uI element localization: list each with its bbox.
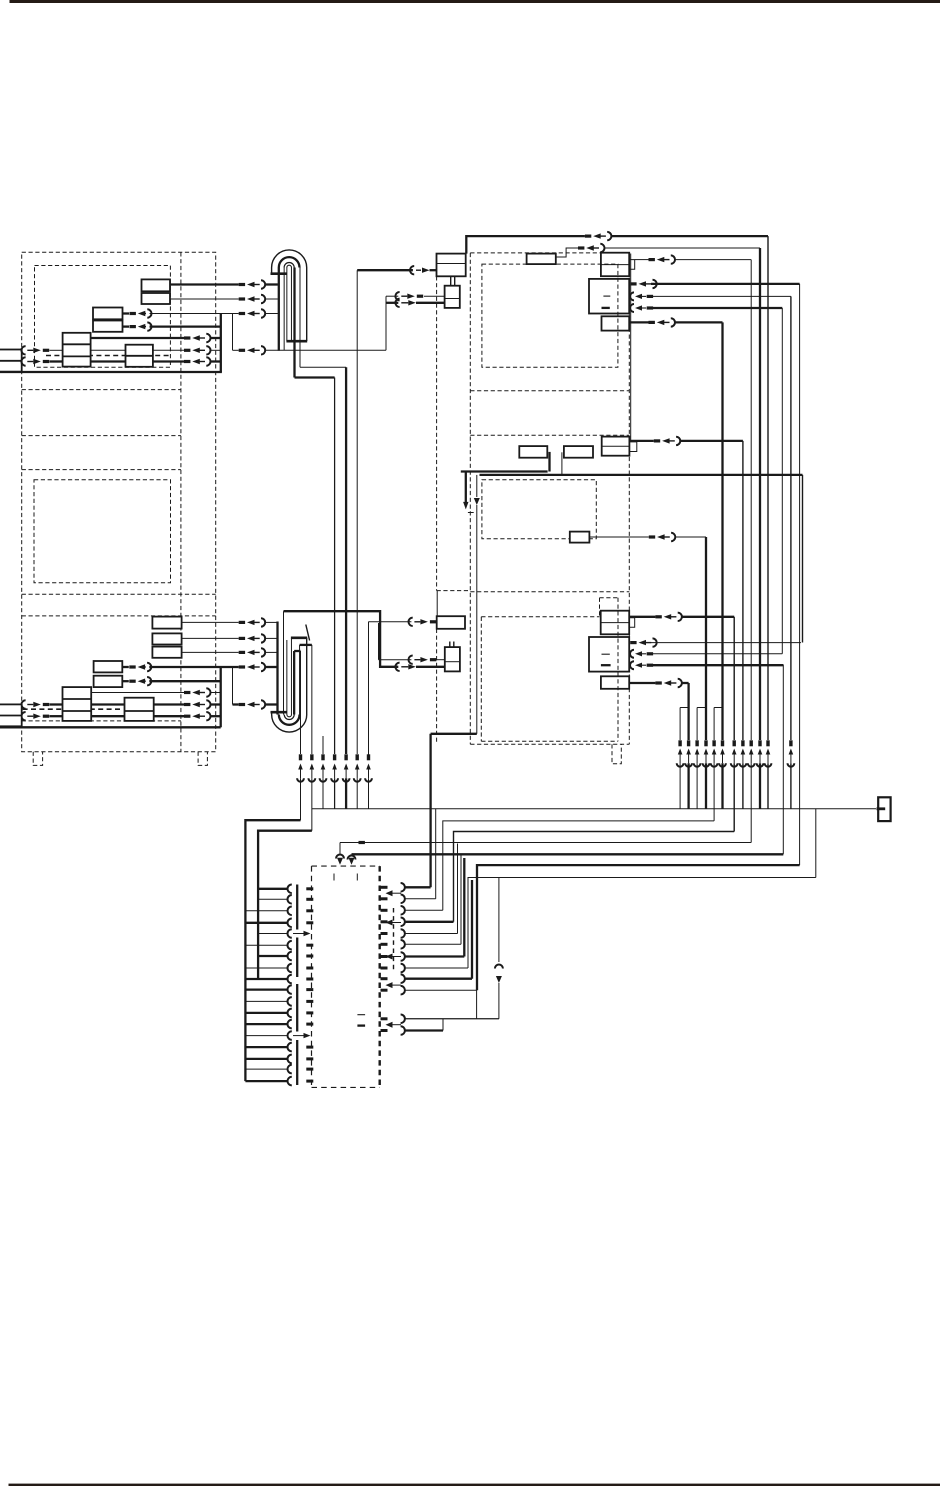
IC mark a: [357, 1014, 365, 1016]
bottom bus upper-left block: [0, 371, 222, 373]
lower loop inner leg: [286, 640, 288, 715]
loop leg descending thin: [299, 268, 301, 368]
connector symbol into box K1: [410, 266, 414, 274]
down arrow into lower section: [465, 472, 467, 503]
wire K3 bottom: [630, 304, 634, 312]
IC left bus B: [258, 831, 312, 979]
dashed IC / connector body: [312, 865, 380, 867]
bus col 8: [742, 441, 744, 740]
pin rail segment: [296, 984, 298, 1032]
wire L3: [91, 692, 184, 694]
mid bus col 6: [356, 270, 358, 754]
bus col 4: [705, 537, 707, 740]
lower loop leg thin R: [299, 645, 301, 715]
IC top pin tick 1: [333, 874, 335, 881]
wire K10: [629, 682, 655, 684]
IC right pin 9: [381, 977, 388, 980]
IC right arrow in: [386, 1022, 393, 1028]
lower loop inner leg R: [290, 638, 292, 715]
IC r11 wire: [406, 1018, 499, 1020]
vertical bus right of lower-left block: [220, 667, 222, 727]
IC right pin 12: [381, 1029, 388, 1032]
top border bar: [10, 0, 940, 3]
notch K5: [629, 442, 636, 452]
riser col K3-K9: [781, 308, 783, 654]
stub L2a: [122, 666, 129, 668]
inner dashed box right-bottom (stepped top): [481, 616, 599, 618]
IC left pin 2: [258, 898, 287, 900]
dashed divider between upper/lower left blocks: [22, 593, 216, 595]
small box on dashed edge: [527, 254, 556, 265]
pin rail segment: [296, 885, 298, 930]
dashed partition: [180, 252, 182, 751]
dashed divider: [22, 389, 181, 391]
thin riser to X2 upper wire: [378, 623, 380, 660]
IC left pin 18: [245, 1080, 287, 1082]
wire to crystal upper: [386, 295, 398, 297]
mark in K9: [602, 653, 610, 655]
solid edge segment right block: [630, 254, 632, 442]
riser to crystal wires: [385, 296, 387, 350]
IC r5 riser: [457, 844, 459, 934]
drop from M1: [548, 452, 550, 472]
IC right arrow in: [386, 890, 393, 896]
flex ribbon fold loop lower: [272, 715, 307, 733]
IC left pin 13: [245, 1023, 287, 1025]
IC r9 riser: [471, 880, 473, 979]
IC top pin tick 2: [356, 874, 358, 881]
loop inner end cap: [286, 340, 307, 343]
bus col 2: [687, 683, 689, 740]
IC left pin 16: [245, 1058, 287, 1060]
lower loop leg: [283, 611, 285, 714]
block U2b: [93, 321, 123, 332]
thick wire loop to X2: [284, 611, 399, 667]
mid bus col 5: [345, 367, 347, 754]
stub U2b: [123, 325, 130, 327]
wire K9 top: [630, 641, 636, 644]
wire to crystal lower: [386, 302, 398, 304]
crystal stub lower: [449, 642, 451, 648]
inner dashed box right-mid: [482, 480, 596, 539]
IC right pin 3: [381, 909, 388, 912]
wire T2: [182, 637, 239, 639]
dashed outline - left circuit board block: [22, 252, 216, 751]
wire K6: [589, 536, 648, 538]
edge connector block left: [0, 350, 22, 372]
wire K9 mid: [630, 650, 634, 658]
mark in K3: [603, 295, 610, 297]
bottom bus lower-left block: [0, 726, 221, 728]
loop leg descending thick: [293, 268, 295, 378]
jog 2: [697, 707, 706, 709]
lower loop outer left leg: [271, 712, 273, 714]
dashed link vertical: [436, 276, 438, 590]
IC r2 riser: [435, 809, 437, 899]
bus col 3: [696, 708, 698, 741]
wire U3 top row: [91, 337, 184, 339]
bus col 12: [790, 296, 792, 740]
IC right pin 7: [381, 955, 388, 958]
bus col 6: [721, 322, 723, 740]
bold mark in K9: [601, 664, 611, 666]
riser col7: [368, 622, 370, 758]
connector box K8: [601, 611, 630, 635]
bus col 9: [750, 260, 752, 740]
riser col 476: [476, 878, 478, 1019]
step r12: [442, 1019, 444, 1031]
box M1: [519, 446, 547, 458]
chain C horiz: [357, 269, 413, 271]
lower loop leg thick R: [293, 651, 295, 715]
dashed divider: [22, 720, 181, 722]
pin rail segment: [296, 1040, 298, 1085]
wire K3 mid: [630, 292, 634, 300]
IC left pin 3: [245, 910, 287, 912]
block T1: [152, 617, 181, 629]
block L2b: [94, 676, 123, 687]
thin down arrow: [476, 475, 478, 497]
pass-through col B: [799, 284, 801, 865]
bus line m1: [461, 470, 548, 472]
connector box K3: [589, 279, 629, 314]
loop inner leg L: [286, 268, 288, 342]
wire L2b: [129, 680, 135, 683]
mid bus col 7: [368, 622, 370, 754]
IC left bus A: [245, 820, 300, 1081]
dashed signal line lower block: [23, 708, 123, 710]
wire K8: [629, 616, 655, 618]
wire through chain at y361: [21, 357, 25, 365]
branch with down arrow to IC r11: [498, 878, 500, 963]
IC left pin 1: [258, 888, 287, 890]
wire L2a: [129, 665, 135, 668]
block T2: [152, 633, 181, 644]
IC left pin 4: [245, 922, 287, 924]
3-row block U3: [63, 333, 91, 367]
route y877 to IC r8: [468, 878, 816, 969]
connector box K1: [437, 254, 466, 277]
wire U1a to flex loop: [170, 283, 239, 285]
dashed divider right block 2: [470, 434, 629, 436]
IC left pin 10: [245, 988, 287, 990]
lower loop inner end cap: [291, 636, 307, 639]
dashed mounting foot left: [33, 752, 42, 766]
stub L2b: [122, 680, 129, 682]
IC mark b: [357, 1024, 365, 1026]
inner dashed box right-top: [482, 264, 618, 367]
wire through chain at y350: [21, 346, 25, 354]
block U1a: [142, 279, 171, 291]
wire K9 bottom: [630, 661, 634, 669]
lower loop outer right leg: [306, 638, 308, 715]
mid bus col 1: [300, 651, 302, 754]
thin wire to K7: [369, 621, 412, 623]
IC left pin 11: [245, 1000, 287, 1002]
mid bus col 4: [334, 378, 336, 755]
bottom border line: [9, 1484, 940, 1486]
pass-through col A: [782, 665, 784, 855]
loop leg: [283, 268, 285, 351]
block U1b: [142, 293, 171, 304]
branch riser x232 lower: [232, 667, 234, 705]
long wire to edge connector: [312, 808, 876, 810]
wire chain y704: [21, 700, 25, 708]
loop left end cap: [271, 272, 287, 275]
lower loop left end cap: [271, 711, 287, 714]
jog 1: [680, 707, 689, 709]
jog 3: [714, 707, 722, 709]
branch riser x232: [232, 314, 234, 351]
IC right pin 4: [381, 920, 388, 923]
connector box K4: [602, 316, 630, 330]
chain A thick horiz: [295, 376, 335, 378]
vertical bus right of upper-left block: [220, 314, 222, 373]
chain B thin horiz: [300, 366, 346, 368]
loop outer left leg: [271, 268, 273, 274]
IC right arrow in: [386, 920, 393, 926]
wire T1: [182, 621, 239, 623]
bus col 10: [759, 248, 761, 740]
dashed divider right block: [470, 390, 629, 392]
bus col 1: [679, 708, 681, 741]
connector box K7: [437, 616, 465, 629]
dashed divider right block 3: [470, 591, 629, 593]
IC right pin 5: [381, 932, 388, 935]
bus col 7: [733, 617, 735, 740]
block U2a: [93, 308, 123, 320]
dashed link horizontal: [437, 590, 471, 592]
notch K2: [629, 260, 635, 270]
dashed outline right block: [469, 253, 471, 744]
IC r7 riser: [463, 858, 465, 957]
IC left pin 5: [258, 933, 287, 935]
IC right arrow in: [386, 982, 393, 988]
branch drop x815: [815, 809, 817, 878]
connector box K5: [602, 437, 630, 456]
IC right pin 10: [381, 989, 388, 992]
step wire from small box: [556, 248, 578, 257]
dashed mounting foot right: [198, 752, 207, 766]
loop thick left leg: [278, 268, 280, 351]
wire K2: [635, 259, 649, 261]
block T3: [152, 647, 181, 658]
wire K5: [629, 440, 653, 442]
wire T3: [182, 651, 239, 653]
route y854 to IC top in2: [352, 853, 784, 855]
riser col m2-K9: [802, 475, 804, 643]
inner dashed box mid-left: [34, 480, 171, 583]
dashed segment right of IC: [393, 908, 395, 970]
dashed foot right block: [612, 744, 621, 764]
bold mark in K3: [602, 307, 610, 309]
dashed link vertical lower: [436, 629, 438, 745]
crystal stub: [450, 276, 452, 285]
connector box K2: [601, 253, 629, 277]
wire K1 to bus col 768: [466, 236, 585, 254]
IC left pin 9: [245, 978, 287, 980]
IC left pin 14: [245, 1035, 287, 1037]
crystal block X2: [445, 647, 460, 671]
block L2a: [94, 661, 123, 672]
dashed divider: [22, 469, 181, 471]
dashed signal line upper block: [46, 355, 170, 357]
IC right pin 2: [381, 897, 388, 900]
wire U2a: [130, 312, 136, 315]
wire U1b to flex loop: [170, 298, 239, 300]
IC r6 riser: [460, 855, 462, 944]
lower loop thick left leg: [276, 622, 278, 715]
loop inner leg R: [290, 268, 292, 342]
route y865 to IC r10: [477, 865, 800, 990]
IC right pin 1: [381, 886, 388, 889]
edge connector: [878, 797, 890, 821]
loop outer right leg: [306, 268, 308, 342]
flex ribbon fold loop upper: [272, 250, 307, 268]
route y831 to IC r4: [454, 832, 735, 922]
bus col 11: [767, 236, 769, 740]
wire U2b: [130, 325, 136, 328]
route y842 to IC top in1: [340, 842, 751, 844]
IC right pin 11: [381, 1017, 388, 1020]
IC right pin 8: [381, 967, 388, 970]
dashed divider lower block: [22, 615, 216, 617]
IC left pin 6: [245, 944, 287, 946]
stub U2a: [123, 312, 130, 314]
box M2: [564, 446, 593, 458]
route y821 to IC r3: [443, 821, 714, 910]
wire K4: [629, 321, 648, 323]
crystal block X1: [445, 286, 460, 308]
IC right pin 6: [381, 943, 388, 946]
solid riser to K7: [436, 591, 438, 617]
wire chain y716: [21, 712, 25, 720]
IC left pin 8: [245, 967, 287, 969]
connector box K6: [570, 532, 590, 543]
IC left pin 12: [245, 1012, 287, 1014]
block L4: [125, 698, 154, 721]
notch K8: [629, 618, 635, 628]
IC right arrow in: [386, 954, 393, 960]
IC left pin 15: [245, 1046, 287, 1048]
inner dashed box upper-left: [35, 266, 171, 368]
wire K3 top: [630, 282, 636, 285]
IC r1 riser: [429, 734, 431, 888]
mid bus col 2: [311, 645, 313, 754]
connector box K10: [601, 676, 629, 689]
mid bus col 3: [322, 736, 324, 754]
thin wire to X2 upper: [379, 659, 412, 661]
block U4: [126, 345, 153, 367]
IC left pin 17: [245, 1068, 287, 1070]
3-row block L3: [63, 687, 92, 721]
edge connector tick: [877, 807, 886, 810]
connector box K9: [589, 637, 629, 672]
dashed divider: [22, 435, 181, 437]
edge connector block left lower: [0, 704, 22, 726]
slash mark: [306, 625, 310, 641]
stub from M2: [561, 452, 563, 475]
bus line m2: [480, 474, 803, 476]
link y733: [431, 733, 477, 735]
bus col 5: [713, 708, 715, 741]
IC left pin 7: [258, 955, 287, 957]
pin rail segment: [296, 938, 298, 978]
